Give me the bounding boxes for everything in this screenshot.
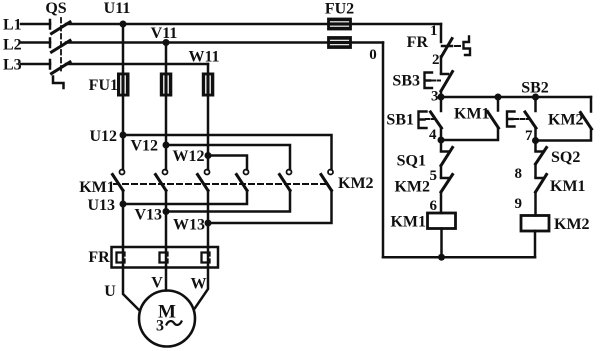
wire node 7 to SQ2 bbox=[534, 141, 537, 151]
wire W13 to FR heater bbox=[207, 223, 210, 247]
wire SB3 to node 3 bbox=[440, 91, 443, 97]
svg-text:4: 4 bbox=[429, 127, 437, 143]
KM2 latch NO contact blade bbox=[581, 113, 592, 130]
thermal relay FR heater box bbox=[112, 247, 219, 268]
fuse FU1c bbox=[203, 74, 214, 96]
FR NC contact tick bbox=[442, 45, 452, 48]
svg-text:L1: L1 bbox=[3, 17, 22, 34]
wire rail to SB2 bbox=[534, 97, 537, 111]
SB1 NO contact blade bbox=[431, 112, 442, 128]
wire L2 rail to FU2 bbox=[66, 41, 383, 44]
wire V13 to FR heater bbox=[165, 212, 168, 248]
svg-text:KM1: KM1 bbox=[79, 179, 115, 196]
wire motor lead W bbox=[195, 267, 208, 308]
svg-text:W13: W13 bbox=[173, 217, 205, 234]
wire W through FR box bbox=[207, 247, 210, 267]
FR trip actuator symbol bbox=[464, 37, 471, 56]
svg-text:FU1: FU1 bbox=[89, 77, 118, 94]
SB1 actuator dashed link bbox=[426, 118, 434, 120]
svg-text:L2: L2 bbox=[3, 37, 22, 54]
svg-text:W11: W11 bbox=[188, 49, 219, 66]
node 7 junction dot bbox=[532, 137, 539, 144]
wire motor lead V bbox=[165, 267, 168, 291]
wire KM2 contact 6 to W13 bbox=[208, 191, 332, 224]
svg-text:U13: U13 bbox=[87, 197, 115, 214]
node rail dot at KM1 latch bbox=[495, 94, 502, 101]
FR heater element U bbox=[117, 253, 125, 263]
node W12 junction dot bbox=[205, 152, 212, 159]
wire node 2 segment bbox=[440, 57, 443, 74]
svg-text:V: V bbox=[151, 275, 163, 292]
KM1 main contact 2 bbox=[156, 170, 168, 191]
svg-text:V11: V11 bbox=[151, 25, 178, 42]
wire KM1 contact 1 to U13 bbox=[122, 191, 125, 205]
wire U column top to fuse FU1a bbox=[122, 24, 125, 75]
SB2 actuator dashed link bbox=[515, 118, 529, 120]
wire L1 lead-in bbox=[21, 23, 50, 26]
wire U through FR box bbox=[122, 247, 125, 267]
wire node 8 segment bbox=[534, 164, 537, 177]
node bottom rail junction dot bbox=[438, 254, 445, 261]
KM1 NC contact blade bbox=[536, 175, 547, 193]
svg-text:U11: U11 bbox=[104, 0, 131, 17]
KM2 main contact 5 bbox=[280, 170, 292, 191]
SQ2 NC contact tick bbox=[536, 150, 543, 153]
SQ1 NC contact blade bbox=[441, 148, 453, 166]
wire KM1 contact 2 to V13 bbox=[165, 191, 168, 212]
svg-text:KM2: KM2 bbox=[548, 112, 584, 129]
svg-text:QS: QS bbox=[45, 0, 66, 17]
wire coil KM1 to bottom rail bbox=[440, 229, 443, 258]
FR NC contact blade bbox=[442, 39, 453, 57]
wire U fuse to node U12 bbox=[122, 96, 125, 136]
QS operating handle hook bbox=[53, 77, 64, 89]
svg-text:KM2: KM2 bbox=[554, 216, 590, 233]
wire node 6 to coil KM1 bbox=[440, 192, 443, 213]
KM1 latch NO contact blade bbox=[488, 112, 499, 129]
svg-text:KM2: KM2 bbox=[394, 179, 430, 196]
fuse FU1a bbox=[118, 74, 129, 96]
wire control bottom rail bbox=[383, 256, 535, 259]
svg-text:FU2: FU2 bbox=[325, 1, 354, 18]
KM1 NC contact tick bbox=[536, 177, 543, 180]
SB3 NC contact blade bbox=[441, 72, 453, 92]
svg-text:W: W bbox=[191, 276, 207, 293]
wire W12 crossover to KM2 contact 4 bbox=[208, 156, 247, 170]
coil KM1 bbox=[428, 213, 456, 229]
KM2 main contact 4 bbox=[237, 170, 249, 191]
QS pole 2 fixed contact tick bbox=[49, 39, 52, 48]
node rail dot at SB2 bbox=[532, 94, 539, 101]
wire V column top to fuse FU1b bbox=[165, 43, 168, 76]
svg-text:2: 2 bbox=[432, 52, 440, 68]
wire W fuse to node W12 bbox=[207, 96, 210, 156]
wire V fuse to node V12 bbox=[165, 96, 168, 146]
svg-text:KM1: KM1 bbox=[454, 106, 490, 123]
svg-text:3: 3 bbox=[431, 89, 439, 105]
node W13 junction dot bbox=[205, 220, 212, 227]
QS pole 1 fixed contact tick bbox=[49, 20, 52, 29]
motor rating tilde bbox=[167, 321, 182, 325]
wire node 9 to coil KM2 bbox=[534, 192, 537, 216]
svg-text:1: 1 bbox=[430, 23, 438, 39]
QS pole 3 fixed contact tick bbox=[49, 60, 52, 69]
fuse FU1b bbox=[161, 74, 172, 96]
node 4 junction dot bbox=[438, 137, 445, 144]
SQ1 NC contact tick bbox=[441, 150, 448, 153]
svg-text:SB3: SB3 bbox=[392, 73, 420, 90]
motor M circle bbox=[139, 291, 195, 347]
coil KM2 bbox=[521, 216, 549, 232]
wire KM2 contact 4 to U13 bbox=[123, 191, 247, 205]
wire V through FR box bbox=[165, 247, 168, 267]
node U11 junction dot bbox=[120, 21, 127, 28]
svg-text:KM1: KM1 bbox=[390, 214, 426, 231]
wire L1 corner down to FR contact bbox=[440, 24, 443, 42]
svg-text:L3: L3 bbox=[3, 57, 22, 74]
svg-text:8: 8 bbox=[515, 166, 523, 182]
fuse FU2a bbox=[328, 19, 351, 30]
svg-text:5: 5 bbox=[430, 168, 438, 184]
wire node 5 segment bbox=[440, 166, 443, 177]
svg-text:V13: V13 bbox=[134, 207, 162, 224]
FR trip actuator dash bbox=[455, 45, 460, 47]
QS pole 1 blade bbox=[52, 22, 71, 34]
wire W12 to KM1 contact 3 bbox=[207, 156, 210, 170]
svg-text:9: 9 bbox=[515, 196, 523, 212]
wire L2 lead-in bbox=[21, 41, 50, 44]
SB3 actuator dashed link bbox=[432, 80, 440, 82]
wire L1 rail to FU2 bbox=[66, 23, 441, 26]
node 3 junction dot bbox=[438, 94, 445, 101]
wire node 3 rail bbox=[441, 96, 591, 99]
node V11 junction dot bbox=[163, 39, 170, 46]
svg-text:V12: V12 bbox=[130, 138, 158, 155]
svg-text:0: 0 bbox=[369, 47, 377, 63]
svg-text:SB2: SB2 bbox=[521, 80, 549, 97]
KM2 NC contact blade bbox=[441, 175, 453, 193]
wire KM1 contact 3 to W13 bbox=[207, 191, 210, 224]
SB1 button actuator bbox=[419, 112, 427, 129]
fuse FU2b bbox=[328, 37, 351, 48]
svg-text:FR: FR bbox=[88, 249, 110, 266]
wire U13 to FR heater bbox=[122, 204, 125, 247]
wire node 4 to SQ1 bbox=[440, 140, 443, 150]
node U12 junction dot bbox=[120, 132, 127, 139]
wire neutral 0 rail down bbox=[382, 43, 385, 258]
QS pole 2 blade bbox=[52, 41, 71, 53]
wire KM2 contact 5 to V13 bbox=[166, 191, 290, 212]
wire motor lead U bbox=[123, 267, 139, 310]
svg-text:SQ2: SQ2 bbox=[551, 149, 580, 166]
FR heater element W bbox=[202, 253, 210, 263]
FR heater element V bbox=[160, 253, 168, 263]
wire node 3 to SB1 bbox=[440, 97, 443, 111]
wire L3 rail to W11 corner bbox=[66, 63, 208, 66]
wire KM2 latch to node 7 bbox=[536, 129, 592, 141]
node V13 junction dot bbox=[163, 208, 170, 215]
svg-text:FR: FR bbox=[407, 34, 429, 51]
wire coil KM2 to bottom rail bbox=[534, 231, 537, 257]
wire L3 lead-in bbox=[21, 63, 50, 66]
wire KM1 latch to node 4 bbox=[441, 128, 498, 140]
QS pole 3 blade bbox=[52, 62, 71, 74]
svg-text:SQ1: SQ1 bbox=[397, 153, 426, 170]
KM1/KM2 mechanical linkage dashed line bbox=[114, 183, 326, 185]
SB2 NO contact blade bbox=[525, 112, 536, 128]
QS mechanical link dashed line bbox=[60, 18, 62, 74]
wire V12 to KM1 contact 2 bbox=[165, 145, 168, 170]
node U13 junction dot bbox=[120, 201, 127, 208]
SB3 button actuator bbox=[425, 73, 433, 89]
wire SB2 to node 7 bbox=[534, 128, 537, 141]
svg-text:W12: W12 bbox=[173, 148, 205, 165]
wire rail corner to KM2 latch bbox=[590, 97, 593, 112]
wire SB1 to node 4 bbox=[440, 128, 443, 140]
wire rail to KM1 latch bbox=[497, 97, 500, 111]
KM1 main contact 1 bbox=[113, 170, 125, 191]
SB2 button actuator bbox=[507, 112, 515, 127]
svg-text:3: 3 bbox=[156, 318, 164, 335]
svg-text:SB1: SB1 bbox=[386, 112, 414, 129]
svg-text:KM1: KM1 bbox=[550, 178, 586, 195]
wire U12 crossover to KM2 contact 6 bbox=[123, 135, 332, 170]
svg-text:U12: U12 bbox=[89, 128, 117, 145]
svg-text:KM2: KM2 bbox=[338, 175, 374, 192]
wire U12 to KM1 contact 1 bbox=[122, 135, 125, 170]
svg-text:U: U bbox=[104, 283, 116, 300]
wire V12 crossover to KM2 contact 5 bbox=[166, 145, 290, 170]
KM2 NC contact tick bbox=[441, 177, 448, 180]
KM1 main contact 3 bbox=[198, 170, 210, 191]
SQ2 NC contact blade bbox=[536, 148, 547, 165]
svg-text:7: 7 bbox=[525, 128, 533, 144]
SB3 NC contact tick bbox=[441, 73, 448, 76]
KM2 main contact 6 bbox=[321, 170, 333, 191]
wire W column top to fuse FU1c bbox=[207, 64, 210, 75]
node V12 junction dot bbox=[163, 142, 170, 149]
